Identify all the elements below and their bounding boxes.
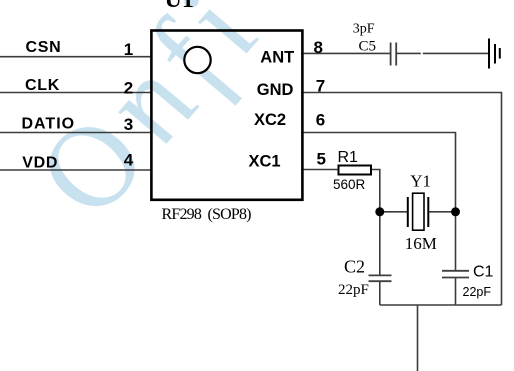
svg-text:DATIO: DATIO [22, 116, 76, 133]
svg-text:C1: C1 [473, 264, 494, 281]
svg-text:U1: U1 [165, 0, 194, 13]
svg-text:CSN: CSN [26, 39, 62, 56]
svg-text:VDD: VDD [22, 155, 58, 172]
svg-text:560R: 560R [333, 177, 366, 192]
svg-text:R1: R1 [338, 149, 359, 166]
svg-text:4: 4 [124, 151, 134, 170]
svg-text:XC1: XC1 [249, 152, 281, 170]
svg-text:3pF: 3pF [353, 22, 375, 37]
svg-text:ANT: ANT [260, 48, 294, 66]
svg-text:8: 8 [314, 38, 323, 57]
svg-text:2: 2 [124, 78, 133, 97]
svg-text:22pF: 22pF [338, 282, 369, 298]
svg-text:6: 6 [316, 110, 325, 129]
svg-text:16M: 16M [405, 234, 437, 253]
svg-text:5: 5 [317, 149, 326, 168]
svg-text:C5: C5 [359, 38, 377, 54]
svg-text:GND: GND [257, 81, 294, 99]
svg-text:Y1: Y1 [410, 172, 431, 191]
svg-text:CLK: CLK [25, 77, 60, 94]
svg-text:7: 7 [316, 76, 325, 95]
svg-text:RF298 (SOP8): RF298 (SOP8) [162, 206, 252, 223]
svg-text:1: 1 [124, 40, 133, 59]
svg-text:3: 3 [124, 115, 133, 134]
svg-text:C2: C2 [344, 257, 365, 277]
svg-text:XC2: XC2 [254, 111, 286, 129]
svg-text:22pF: 22pF [463, 285, 492, 299]
